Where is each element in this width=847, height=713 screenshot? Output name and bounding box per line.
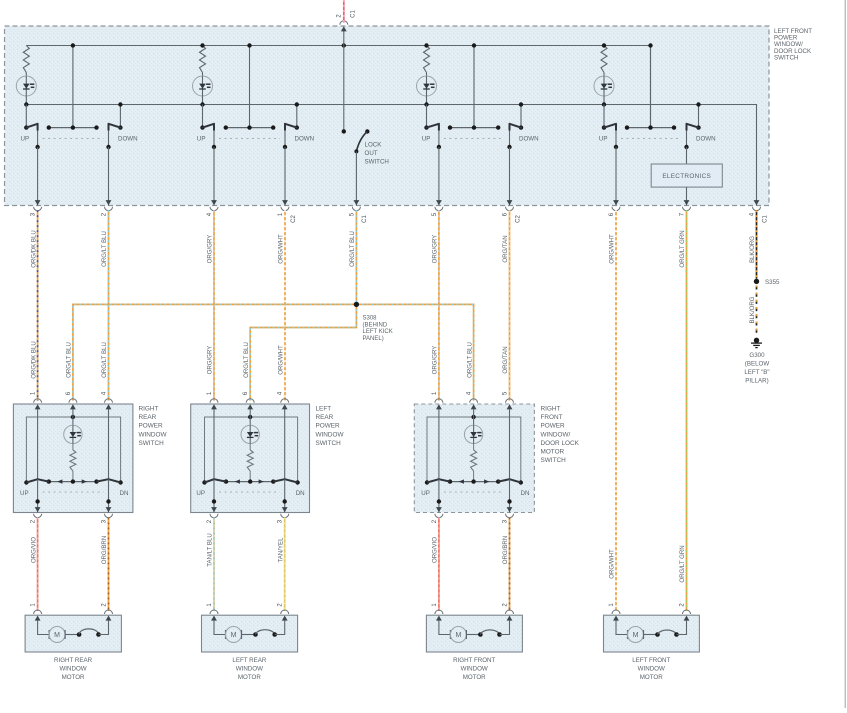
wire DOWN 2 to pin: [284, 147, 286, 206]
pin exits bottom: [436, 507, 442, 512]
wire splice branch to right rear switch: [73, 304, 357, 400]
wire pin column left: [37, 409, 39, 479]
pin entries: [34, 610, 42, 614]
connector pin 7 bottom of switch: [684, 200, 690, 205]
wire ORG/VIO: [438, 518, 440, 612]
svg-text:C1: C1: [362, 215, 368, 223]
wire lock out switch to pin: [355, 151, 357, 205]
wire pin column left: [213, 409, 215, 479]
UP contact arm: [425, 480, 429, 484]
feed U bus: [205, 417, 298, 481]
illumination LED: [64, 425, 82, 443]
svg-text:REAR: REAR: [316, 414, 334, 421]
svg-text:UP: UP: [421, 490, 430, 497]
mechanical link: [444, 491, 505, 493]
splice S308: [354, 302, 359, 307]
pin entries top: [435, 399, 443, 403]
svg-text:M: M: [231, 632, 237, 639]
svg-text:ORG/WHT: ORG/WHT: [277, 345, 284, 375]
wires to bottom pins: [37, 479, 39, 512]
pin entries top: [210, 399, 218, 403]
wire splice branch to right front switch: [356, 304, 473, 400]
connector pin 1 bottom of switch: [282, 200, 288, 205]
svg-text:M: M: [54, 632, 60, 639]
wire ORG/WHT: [284, 210, 286, 400]
wire ORG/LT BLU: [108, 210, 110, 400]
svg-text:UP: UP: [197, 136, 206, 143]
svg-text:MOTOR: MOTOR: [238, 674, 261, 681]
svg-text:C2: C2: [291, 215, 297, 223]
wire UP 1 to pin: [37, 147, 39, 206]
connector C1 pin 2 entry: [340, 21, 348, 25]
svg-text:ELECTRONICS: ELECTRONICS: [662, 173, 711, 180]
resistor R4: [601, 46, 607, 73]
connector pin 6 bottom of switch: [507, 200, 513, 205]
wire feed bar 2: [249, 46, 251, 128]
svg-text:UP: UP: [599, 136, 608, 143]
pin entries: [612, 610, 620, 614]
svg-text:ORG/GRY: ORG/GRY: [432, 235, 439, 264]
mechanical link 2: [219, 138, 280, 140]
wire DOWN 1 to pin: [108, 147, 110, 206]
svg-text:DOWN: DOWN: [118, 136, 138, 143]
mechanical link 1: [43, 138, 104, 140]
svg-text:DN: DN: [521, 490, 530, 497]
left rear window motor label: [232, 657, 266, 681]
wire ORG/BRN: [509, 518, 511, 612]
svg-text:WINDOW: WINDOW: [236, 665, 263, 672]
svg-text:ORG/DK BLU: ORG/DK BLU: [30, 341, 37, 379]
svg-text:ORG/WHT: ORG/WHT: [609, 234, 616, 264]
svg-text:SWITCH: SWITCH: [316, 440, 342, 447]
wire feed bar 4: [650, 46, 652, 128]
pin exits bottom: [211, 507, 217, 512]
svg-text:SWITCH: SWITCH: [541, 457, 567, 464]
svg-text:UP: UP: [422, 136, 431, 143]
svg-text:LEFT FRONT: LEFT FRONT: [632, 657, 670, 664]
wire top feed bus: [26, 46, 650, 128]
motor M: [439, 620, 450, 634]
svg-text:FRONT: FRONT: [541, 414, 563, 421]
illumination LED DS3: [417, 76, 437, 96]
svg-text:C1: C1: [351, 10, 357, 18]
svg-text:DN: DN: [296, 490, 305, 497]
svg-text:ORG/BRN: ORG/BRN: [101, 536, 108, 564]
wires to bottom pins: [213, 479, 215, 512]
svg-text:WINDOW: WINDOW: [59, 665, 86, 672]
wire ORG/WHT: [615, 210, 617, 611]
wire UP 3 to pin: [438, 147, 440, 206]
electronics module U1: [651, 164, 722, 187]
motor M: [616, 620, 627, 634]
node LED DS3 bottom: [424, 102, 428, 106]
contact bar: [450, 481, 498, 483]
UP switch SW1A: [25, 105, 27, 128]
circuit breaker: [77, 632, 82, 637]
wire pin column center: [249, 409, 251, 426]
svg-text:ORG/WHT: ORG/WHT: [278, 234, 285, 264]
wire ORG/TAN: [509, 210, 511, 400]
connector pin 5 bottom of switch: [436, 200, 442, 205]
svg-text:TAN/YEL: TAN/YEL: [277, 537, 284, 563]
ground G300: [754, 338, 759, 343]
svg-text:ORG/LT BLU: ORG/LT BLU: [243, 342, 250, 378]
wire lamp ground bus: [26, 105, 756, 206]
DOWN switch SW2B: [296, 105, 298, 128]
svg-text:LEFT KICK: LEFT KICK: [363, 329, 393, 335]
svg-text:TAN/LT BLU: TAN/LT BLU: [207, 533, 214, 567]
svg-text:C1: C1: [762, 215, 768, 223]
svg-text:LOCK: LOCK: [365, 141, 383, 148]
svg-text:ORG/TAN: ORG/TAN: [502, 346, 509, 373]
wire ORG/GRY: [438, 210, 440, 400]
connector pin 5 bottom of switch: [354, 200, 360, 205]
svg-text:PANEL): PANEL): [363, 336, 384, 342]
resistor R1: [23, 46, 29, 73]
svg-text:ORG/BRN: ORG/BRN: [502, 536, 509, 564]
svg-text:ORG/LT BLU: ORG/LT BLU: [466, 342, 473, 378]
circuit breaker: [655, 632, 660, 637]
illumination LED: [464, 425, 482, 443]
resistor: [471, 450, 477, 471]
svg-text:OUT: OUT: [365, 150, 378, 157]
contact bar: [226, 481, 273, 483]
right front window motor box: [426, 615, 522, 652]
svg-text:UP: UP: [20, 490, 29, 497]
right rear power window switch box: [13, 404, 132, 513]
feed U bus: [26, 417, 120, 481]
svg-text:ORG/WHT: ORG/WHT: [609, 549, 616, 579]
wire TAN/LT BLU: [213, 518, 215, 612]
connector pin 2 bottom of switch: [106, 200, 112, 205]
right rear power window switch label: [139, 406, 168, 447]
svg-text:S308: S308: [363, 316, 378, 322]
circuit breaker: [253, 632, 258, 637]
left rear power window switch box: [191, 404, 310, 513]
left rear window motor box: [202, 615, 298, 652]
svg-text:C2: C2: [515, 215, 521, 223]
left rear power window switch label: [316, 406, 345, 447]
svg-text:POWER: POWER: [316, 423, 341, 430]
node LED DS1 bottom: [24, 102, 28, 106]
svg-text:BLK/ORG: BLK/ORG: [749, 296, 756, 323]
illumination LED DS4: [594, 76, 614, 96]
connector pin 4 bottom of switch: [211, 200, 217, 205]
mechanical link: [219, 491, 280, 493]
svg-text:M: M: [633, 632, 639, 639]
contact bar 3: [450, 127, 498, 129]
node LED DS4 bottom: [602, 102, 606, 106]
svg-text:WINDOW: WINDOW: [316, 431, 345, 438]
svg-text:ORG/LT GRN: ORG/LT GRN: [679, 545, 686, 582]
wire pin column left: [438, 409, 440, 479]
svg-text:POWER: POWER: [139, 423, 164, 430]
feed U bus: [427, 417, 521, 481]
wire BLK/ORG to ground (dashed): [756, 286, 758, 336]
connector pin 3 bottom of switch: [35, 200, 41, 205]
left front window motor box: [604, 615, 700, 652]
lock out switch: [342, 129, 346, 133]
node resistor R3 top: [424, 43, 428, 47]
svg-text:ORG/GRY: ORG/GRY: [207, 235, 214, 264]
wire feed bar 3: [473, 46, 475, 128]
svg-text:(BELOW: (BELOW: [745, 361, 770, 368]
svg-text:RIGHT: RIGHT: [541, 406, 561, 413]
wire ORG/BRN: [108, 518, 110, 612]
UP contact arm: [24, 480, 28, 484]
page edge line: [844, 0, 846, 708]
node battery feed: [342, 43, 346, 47]
wires to bottom pins: [438, 479, 440, 512]
svg-text:ORG/GRY: ORG/GRY: [207, 346, 214, 375]
wire UP 2 to pin: [213, 147, 215, 206]
left front window motor label: [632, 657, 670, 681]
svg-text:SWITCH: SWITCH: [774, 54, 798, 61]
mechanical link: [43, 491, 104, 493]
connector pin 6 bottom of switch: [613, 200, 619, 205]
svg-text:DN: DN: [120, 490, 129, 497]
pin entries top: [34, 399, 42, 403]
DN contact arm: [295, 480, 299, 484]
illumination LED DS1: [16, 76, 36, 96]
svg-text:M: M: [455, 632, 461, 639]
wire battery feed drop: [343, 31, 345, 131]
contact bar: [49, 481, 97, 483]
right front window motor label: [453, 657, 495, 681]
svg-text:ORG/LT BLU: ORG/LT BLU: [349, 231, 356, 267]
svg-text:MOTOR: MOTOR: [640, 674, 663, 681]
wire RED battery feed: [343, 0, 345, 23]
svg-text:ORG/DK BLU: ORG/DK BLU: [30, 230, 37, 268]
svg-text:RIGHT: RIGHT: [139, 406, 159, 413]
svg-text:SWITCH: SWITCH: [139, 440, 165, 447]
svg-text:PILLAR): PILLAR): [745, 378, 768, 385]
right rear window motor box: [25, 615, 121, 652]
svg-text:DOWN: DOWN: [696, 136, 716, 143]
right front power window door lock motor switch box: [414, 404, 534, 513]
node resistor R4 top: [602, 43, 606, 47]
svg-text:WINDOW: WINDOW: [461, 665, 488, 672]
contact bar 2: [226, 127, 273, 129]
wire ORG/GRY: [213, 210, 215, 400]
mechanical link 4: [621, 138, 682, 140]
wire DOWN 3 to pin: [509, 147, 511, 206]
UP switch SW2A: [202, 105, 204, 128]
svg-text:LEFT REAR: LEFT REAR: [232, 657, 266, 664]
pin entries: [435, 610, 443, 614]
svg-text:SWITCH: SWITCH: [365, 158, 389, 165]
DN contact arm: [118, 480, 122, 484]
wire TAN/YEL: [284, 518, 286, 612]
svg-text:WINDOW/: WINDOW/: [541, 431, 571, 438]
svg-text:POWER: POWER: [541, 423, 566, 430]
svg-text:ORG/VIO: ORG/VIO: [30, 537, 37, 563]
connector pin 4 bottom of switch: [754, 200, 760, 205]
svg-text:WINDOW: WINDOW: [638, 665, 665, 672]
wire BLK/ORG: [756, 210, 758, 279]
svg-text:(BEHIND: (BEHIND: [363, 322, 388, 328]
svg-text:REAR: REAR: [139, 414, 157, 421]
svg-text:MOTOR: MOTOR: [541, 449, 565, 456]
wire ORG/LT GRN: [686, 210, 688, 611]
contact bar 4: [627, 127, 674, 129]
pin entries: [210, 610, 218, 614]
wire ORG/DK BLU: [37, 210, 39, 400]
UP switch SW3A: [426, 105, 428, 128]
wire feed bar 1: [72, 46, 74, 128]
svg-text:LEFT "B": LEFT "B": [744, 369, 769, 376]
contact bar 1: [49, 127, 97, 129]
resistor R3: [424, 46, 430, 73]
motor M: [38, 620, 49, 634]
svg-text:ORG/GRY: ORG/GRY: [432, 346, 439, 375]
svg-text:ORG/LT BLU: ORG/LT BLU: [66, 342, 73, 378]
wire ORG/VIO: [37, 518, 39, 612]
circuit breaker: [478, 632, 483, 637]
svg-text:MOTOR: MOTOR: [463, 674, 486, 681]
svg-text:ORG/VIO: ORG/VIO: [432, 537, 439, 563]
wire pin column center: [473, 409, 475, 426]
node LED DS2 bottom: [200, 102, 204, 106]
wire pin column right: [108, 409, 110, 479]
wire ORG/LT BLU: [355, 210, 357, 304]
svg-text:DOWN: DOWN: [295, 136, 315, 143]
DN contact arm: [519, 480, 523, 484]
wire splice branch to left rear switch: [250, 304, 356, 400]
illumination LED: [241, 425, 259, 443]
svg-text:ORG/LT BLU: ORG/LT BLU: [101, 231, 108, 267]
svg-text:ORG/TAN: ORG/TAN: [502, 235, 509, 262]
DOWN switch SW1B: [119, 105, 121, 128]
illumination LED DS2: [193, 76, 213, 96]
left front power window/door lock switch box: [5, 26, 770, 206]
svg-text:RIGHT FRONT: RIGHT FRONT: [453, 657, 495, 664]
wire UP 4 to pin: [615, 147, 617, 206]
motor M: [214, 620, 225, 634]
svg-text:DOOR LOCK: DOOR LOCK: [541, 440, 580, 447]
svg-text:G300: G300: [749, 352, 765, 359]
svg-text:WINDOW: WINDOW: [139, 431, 168, 438]
right front power window door lock motor switch label: [541, 406, 580, 465]
svg-text:LEFT: LEFT: [316, 406, 332, 413]
svg-text:UP: UP: [20, 136, 29, 143]
svg-text:BLK/ORG: BLK/ORG: [749, 236, 756, 263]
UP contact arm: [202, 480, 206, 484]
svg-text:ORG/LT GRN: ORG/LT GRN: [679, 230, 686, 267]
UP switch SW4A: [603, 105, 605, 128]
mechanical link 3: [444, 138, 505, 140]
resistor: [70, 450, 76, 471]
wire pin column center: [72, 409, 74, 426]
DOWN switch SW3B: [520, 105, 522, 128]
resistor: [247, 450, 253, 471]
pin exits bottom: [35, 507, 41, 512]
wire electronics to pin 7: [686, 187, 688, 205]
wire pin column right: [509, 409, 511, 479]
svg-text:S355: S355: [765, 279, 780, 286]
svg-text:MOTOR: MOTOR: [62, 674, 85, 681]
resistor R2: [200, 46, 206, 73]
right rear window motor label: [54, 657, 93, 681]
svg-text:ORG/LT BLU: ORG/LT BLU: [101, 342, 108, 378]
wire DOWN 4 to electronics: [686, 147, 688, 164]
node resistor R2 top: [200, 43, 204, 47]
svg-text:DOWN: DOWN: [519, 136, 539, 143]
left front power window/door lock switch label: [774, 28, 812, 61]
wire pin column right: [284, 409, 286, 479]
svg-text:RIGHT REAR: RIGHT REAR: [54, 657, 93, 664]
svg-text:UP: UP: [196, 490, 205, 497]
splice S355: [754, 279, 759, 284]
DOWN switch SW4B: [698, 105, 700, 128]
